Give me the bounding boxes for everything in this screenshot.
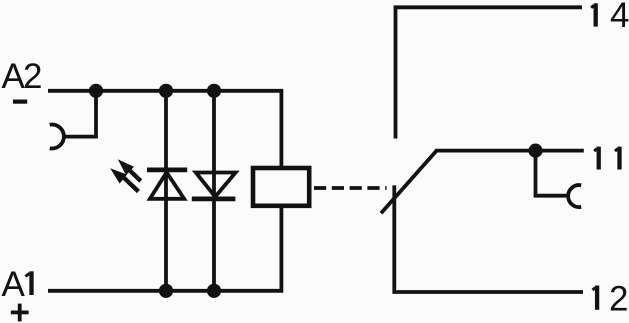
svg-text:A: A [2,265,26,304]
svg-text:A: A [2,57,26,96]
svg-text:4: 4 [610,0,629,35]
svg-text:2: 2 [23,57,42,96]
svg-text:2: 2 [609,280,628,319]
